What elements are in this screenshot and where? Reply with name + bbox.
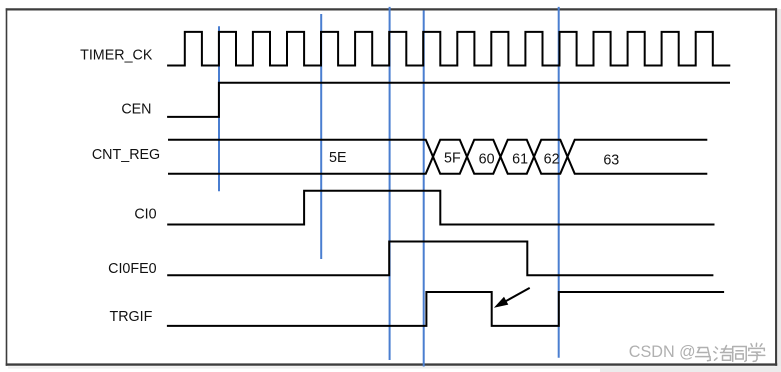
clock-edge marker line 5 (x=558.7) [558,7,560,358]
char ma [696,348,711,361]
svg-text:TIMER_CK: TIMER_CK [80,47,153,63]
svg-text:61: 61 [512,151,528,167]
CI0FE0 waveform [167,242,713,276]
TRGIF waveform [167,292,724,326]
svg-text:60: 60 [479,151,495,167]
svg-text:63: 63 [603,153,619,169]
svg-text:CEN: CEN [121,102,151,118]
clock-edge marker line 4 (x=423.7) [423,10,425,366]
CI0 waveform [167,191,714,225]
svg-text:TRGIF: TRGIF [110,309,153,325]
CNT_REG bus rail A [168,140,707,174]
CEN waveform [167,83,730,117]
TIMER_CK waveform [167,32,730,66]
svg-text:62: 62 [544,151,560,167]
outer gray margin bottom [8,366,781,368]
clock-edge marker line 3 (x=389.6) [389,7,391,360]
clock-edge marker line 2 (x=321.2) [320,14,322,259]
svg-text:CI0FE0: CI0FE0 [108,261,157,277]
svg-text:CSDN @: CSDN @ [629,343,696,361]
char xue [749,343,765,361]
svg-text:5E: 5E [329,150,347,166]
char hao [714,346,733,361]
svg-text:CNT_REG: CNT_REG [92,147,160,163]
outer gray margin right [777,9,781,372]
svg-text:5F: 5F [444,151,461,167]
watermark chinese characters (vector approximation) [696,343,765,361]
char tong [733,347,747,362]
svg-text:CI0: CI0 [134,207,156,223]
CNT_REG bus rail B [168,140,707,174]
clock-edge marker line 1 (x=219) [218,26,220,191]
annotation arrow pointing at TRGIF falling edge [494,288,530,308]
